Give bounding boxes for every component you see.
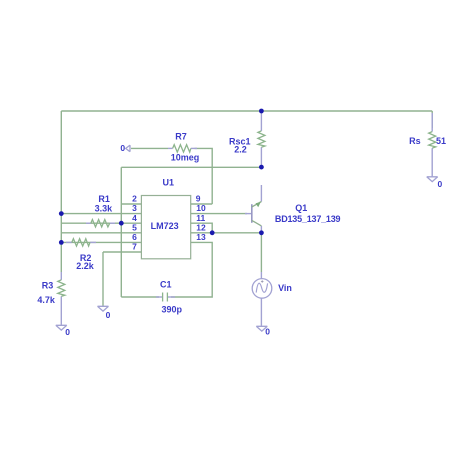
svg-text:10meg: 10meg — [171, 153, 200, 163]
svg-text:BD135_137_139: BD135_137_139 — [275, 214, 341, 224]
svg-text:2.2k: 2.2k — [76, 261, 95, 271]
svg-text:C1: C1 — [160, 280, 172, 290]
svg-text:0: 0 — [265, 326, 270, 336]
svg-text:3: 3 — [132, 203, 137, 213]
svg-text:LM723: LM723 — [151, 221, 179, 231]
svg-text:9: 9 — [196, 194, 201, 204]
svg-text:R3: R3 — [42, 281, 54, 291]
svg-text:R7: R7 — [175, 131, 187, 141]
svg-text:11: 11 — [196, 213, 205, 223]
svg-text:3.3k: 3.3k — [95, 203, 114, 213]
svg-text:0: 0 — [438, 179, 443, 189]
svg-text:0: 0 — [106, 310, 111, 320]
svg-text:0: 0 — [120, 143, 125, 153]
svg-text:7: 7 — [132, 242, 137, 252]
svg-text:6: 6 — [132, 232, 137, 242]
svg-text:12: 12 — [196, 222, 206, 232]
svg-text:4.7k: 4.7k — [37, 295, 56, 305]
svg-text:2: 2 — [132, 194, 137, 204]
svg-text:U1: U1 — [163, 178, 175, 188]
svg-text:13: 13 — [196, 232, 206, 242]
svg-text:5: 5 — [132, 222, 137, 232]
svg-text:51: 51 — [436, 136, 446, 146]
svg-text:Rs: Rs — [409, 136, 421, 146]
svg-text:4: 4 — [132, 213, 137, 223]
svg-text:390p: 390p — [161, 304, 182, 314]
svg-text:2.2: 2.2 — [234, 144, 247, 154]
svg-text:Q1: Q1 — [295, 203, 307, 213]
svg-text:0: 0 — [65, 327, 70, 337]
svg-text:10: 10 — [196, 203, 206, 213]
svg-text:Vin: Vin — [278, 283, 292, 293]
